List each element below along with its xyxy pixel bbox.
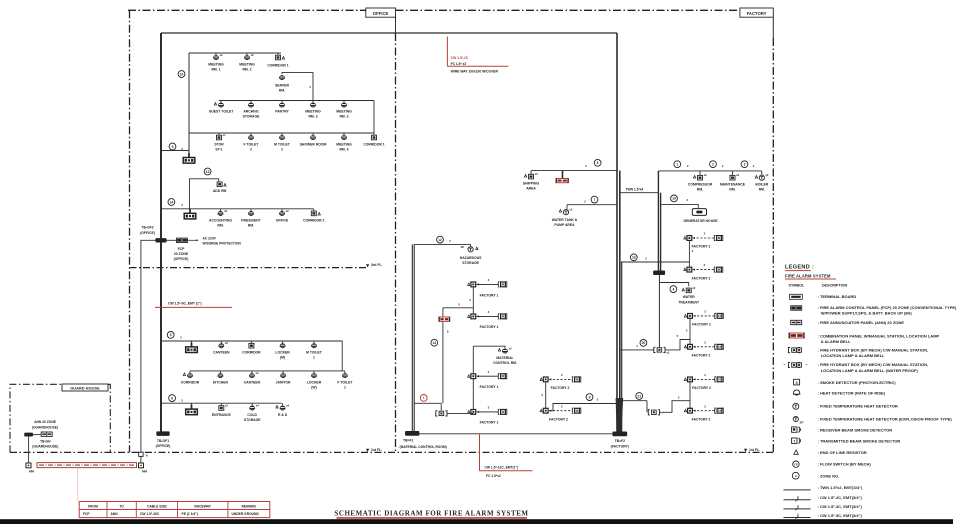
zone node 8 (594, 159, 601, 166)
zone node 13f (630, 254, 637, 261)
wire zone 21 row (620, 400, 647, 402)
terminal board legend symbol (790, 294, 803, 299)
heat detector COLD STORAGE (250, 406, 255, 409)
zone node 6 (169, 395, 176, 402)
svg-text:RM.: RM. (759, 188, 765, 192)
heat detector ARCHIVE STORAGE (248, 103, 253, 106)
wire TWN link (620, 192, 659, 194)
wire legend CW5 (784, 517, 811, 519)
terminal stand office top (188, 153, 190, 158)
svg-text:EP: EP (461, 245, 465, 249)
heat detector SHOWER ROOM (310, 135, 315, 138)
svg-text:F TOILET: F TOILET (337, 380, 353, 384)
svg-text:: FIXED TEMPERATURE HEAT DETEC: : FIXED TEMPERATURE HEAT DETECTOR (EXPLO… (818, 416, 953, 421)
wire zone 14 drop (443, 307, 473, 309)
wire zone 9 link (550, 404, 617, 411)
svg-text:1: 1 (676, 162, 678, 166)
node OFFICE area tag (366, 8, 396, 17)
beam detectors FACTORY 1 (1) (468, 283, 470, 286)
svg-text:: FIRE HYDRANT BOX (BY MECH) C: : FIRE HYDRANT BOX (BY MECH) C/W MANUAL … (818, 347, 929, 352)
svg-text:FIRE ALARM SYSTEM: FIRE ALARM SYSTEM (785, 274, 831, 279)
svg-text:RM. 3: RM. 3 (339, 115, 348, 119)
svg-text:PRESIDENT: PRESIDENT (241, 218, 261, 222)
wire stub (220, 209, 222, 211)
svg-text:CW 1.5²-12C, EMT(1"): CW 1.5²-12C, EMT(1") (485, 465, 519, 469)
wire factory main bundle a (616, 33, 618, 432)
smoke detector SHIPPING AREA (529, 174, 534, 179)
svg-text:3rd FL.: 3rd FL. (371, 263, 383, 267)
svg-text:2: 2 (250, 148, 252, 152)
svg-text:TWN 1.5²x4: TWN 1.5²x4 (626, 187, 644, 191)
wire (442, 308, 444, 404)
heat detector CANTEEN (219, 344, 224, 347)
terminal board TB=F2 (613, 432, 627, 436)
svg-text:WIRE WAY 100x100 W/COVER: WIRE WAY 100x100 W/COVER (451, 69, 499, 73)
svg-text:DESCRIPTION: DESCRIPTION (822, 283, 848, 287)
svg-text:SCHEMATIC DIAGRAM FOR FIRE ALA: SCHEMATIC DIAGRAM FOR FIRE ALARM SYSTEM (334, 510, 528, 518)
svg-text:F TOILET: F TOILET (243, 142, 259, 146)
smoke detector legend symbol (794, 379, 800, 385)
svg-text:: FIRE ALARM CONTROL PANEL (FC: : FIRE ALARM CONTROL PANEL (FCP) 20 ZONE… (818, 305, 958, 310)
heat detector SERVER RM. (279, 75, 284, 78)
svg-text:: COMBINATION PANEL W/MANUAL S: : COMBINATION PANEL W/MANUAL STATION, LO… (818, 333, 940, 338)
zone node 12 (437, 236, 444, 243)
wire TB=F1 riser a (411, 244, 413, 431)
svg-text:1: 1 (423, 396, 425, 400)
terminal stand entrance row (191, 405, 193, 410)
beam detectors FACTORY 1 (4) (468, 410, 470, 413)
wire (660, 401, 690, 413)
zone node 1 (red) (420, 395, 427, 402)
floor line 1st FL dash-dot (10, 451, 773, 453)
zone node 4f (670, 286, 677, 293)
svg-text:FCP: FCP (83, 512, 90, 516)
svg-text:RM.: RM. (217, 224, 223, 228)
svg-text:x2: x2 (704, 173, 707, 177)
svg-text:: FLOW SWITCH (BY MECH): : FLOW SWITCH (BY MECH) (818, 462, 872, 467)
wire (665, 340, 690, 350)
underground duct (red) (37, 463, 137, 468)
smoke detector COMPRESSOR RM (698, 175, 703, 180)
svg-text:COMPRESSOR: COMPRESSOR (688, 183, 713, 187)
terminal stand canteen row (191, 342, 193, 347)
svg-text:FCP: FCP (178, 247, 186, 251)
svg-text:FACTORY 2: FACTORY 2 (692, 418, 711, 422)
smoke detector CORRIDOR 1 end (372, 135, 377, 140)
node GUARD HOUSE tag (62, 384, 108, 391)
zone node 2f (710, 161, 717, 168)
svg-text:: FIRE HYDRANT BOX (BY MECH) C: : FIRE HYDRANT BOX (BY MECH) C/W MANUAL … (818, 362, 929, 367)
wire zone row 2 (219, 100, 374, 102)
terminal board TB=F1 (405, 431, 419, 435)
svg-text:TO: TO (119, 504, 124, 508)
svg-text:RM.: RM. (248, 224, 254, 228)
svg-text:x2: x2 (251, 53, 254, 57)
svg-text:OFFICE: OFFICE (276, 218, 289, 222)
svg-text:FACTORY 1: FACTORY 1 (480, 325, 499, 329)
wire legend CW3 (784, 508, 811, 510)
svg-text:: ZONE NO.: : ZONE NO. (818, 473, 840, 478)
heat detector OFFICE (279, 211, 284, 214)
zone node 9 (169, 143, 176, 150)
wire compressor row (658, 170, 761, 172)
svg-text:MEETING: MEETING (336, 109, 352, 113)
svg-text:3: 3 (744, 162, 746, 166)
svg-text:FACTORY 2: FACTORY 2 (692, 386, 711, 390)
wall boundary office/factory dash-dot (395, 33, 397, 452)
svg-text:: SMOKE DETECTOR (PHOTOELECTRI: : SMOKE DETECTOR (PHOTOELECTRIC) (818, 380, 897, 385)
svg-text:2: 2 (281, 148, 283, 152)
wire (689, 382, 691, 409)
heat detector R & D (280, 406, 285, 409)
svg-text:x2: x2 (225, 404, 228, 408)
svg-text:TB=F1: TB=F1 (403, 438, 414, 442)
heat detector PRESIDENT RM (248, 211, 253, 214)
heat detector PANTRY (279, 103, 284, 106)
svg-text:MEETING: MEETING (305, 109, 321, 113)
heat detector MEETING RM. 3 (310, 103, 315, 106)
svg-text:x3: x3 (692, 286, 695, 290)
svg-text:UNDER GROUND: UNDER GROUND (232, 512, 260, 516)
zone node 3f (741, 161, 748, 168)
svg-text:x2: x2 (224, 209, 227, 213)
heat detector LOCKER (M) (280, 344, 285, 347)
beam detectors FACTORY 2 (r3) (684, 314, 686, 317)
svg-text:FACTORY: FACTORY (747, 11, 767, 16)
svg-text:ANN: ANN (111, 512, 119, 516)
svg-text:SERVER: SERVER (275, 84, 289, 88)
svg-text:JANITOR: JANITOR (276, 380, 291, 384)
wire stub (220, 101, 222, 103)
svg-text:x3: x3 (535, 172, 538, 176)
node duct end left (26, 463, 31, 468)
svg-text:TREATMENT: TREATMENT (678, 300, 700, 304)
heat detector JANITOR (281, 373, 286, 376)
svg-text:HH: HH (29, 470, 34, 474)
svg-text:CORRIDOR: CORRIDOR (242, 350, 261, 354)
svg-text:PUMP AREA: PUMP AREA (554, 223, 575, 227)
svg-text:(M): (M) (280, 356, 285, 360)
svg-text:HAZARDOUS: HAZARDOUS (460, 256, 482, 260)
wire legend TWN (784, 489, 811, 491)
combination panel legend symbol (789, 333, 804, 338)
wire zone row 1 (189, 52, 281, 54)
svg-text:FS: FS (794, 463, 798, 467)
wire water treatment link (658, 275, 660, 348)
heat detector BOILER RM (759, 175, 764, 180)
svg-text:: CW 1.5²-3C, EMT(3/4"): : CW 1.5²-3C, EMT(3/4") (818, 504, 863, 509)
wire stub (566, 205, 568, 210)
svg-text:FACTORY 1: FACTORY 1 (480, 421, 499, 425)
svg-text:STORAGE: STORAGE (244, 418, 261, 422)
svg-text:PANTRY: PANTRY (275, 109, 289, 113)
wire server link (282, 73, 313, 101)
op-panel FCP office (177, 238, 188, 242)
heat detector MEETING RM. 3b (341, 103, 346, 106)
wire right col riser b (660, 193, 662, 271)
smoke detector CORRIDOR 1 (276, 55, 281, 60)
wire office-to-factory top feeder (161, 32, 617, 34)
svg-text:RM.: RM. (729, 188, 735, 192)
svg-text:: FIRE ANNUNCIATOR PANEL (ANN): : FIRE ANNUNCIATOR PANEL (ANN) 20 ZONE (818, 320, 905, 325)
svg-text:x4: x4 (256, 404, 259, 408)
beam transmitter legend symbol (792, 438, 797, 443)
svg-text:RM. 2: RM. 2 (242, 68, 251, 72)
heat detector M TOILET 1 (311, 344, 316, 347)
beam detectors FACTORY 2 (r4) (684, 345, 686, 348)
svg-text:FACTORY 1: FACTORY 1 (480, 293, 499, 297)
wire zone row 5a (161, 341, 342, 371)
terminal stand accounting row (189, 209, 191, 214)
zone node 20 (640, 340, 647, 347)
wire zone 13f row (621, 261, 690, 263)
svg-text:7: 7 (594, 198, 596, 202)
wire factory tag drop (772, 17, 774, 38)
svg-text:ENTRANCE: ENTRANCE (212, 413, 232, 417)
svg-text:RM. 1: RM. 1 (211, 68, 220, 72)
zone number legend symbol (792, 472, 799, 479)
fixed temp EP detector legend symbol (793, 416, 798, 421)
svg-text:x2: x2 (736, 173, 739, 177)
zone node 7 (591, 196, 598, 203)
wire (646, 401, 648, 413)
smoke detector MAINTENANCE RM (730, 175, 735, 180)
zone node 10 (178, 71, 185, 78)
beam detectors FACTORY 2 (c2) (540, 409, 542, 412)
wall boundary right dash-dot (772, 38, 774, 452)
svg-text:: FIXED TEMPERATURE HEAT DETEC: : FIXED TEMPERATURE HEAT DETECTOR (818, 404, 898, 409)
svg-text:: TRANSMITTED BEAM SMOKE DETEC: : TRANSMITTED BEAM SMOKE DETECTOR (818, 439, 901, 444)
svg-text:ADD RM: ADD RM (213, 189, 227, 193)
svg-text:x2: x2 (225, 341, 228, 345)
wire legend CW2 (784, 499, 811, 501)
node wireway label (446, 37, 448, 67)
wire stub (189, 371, 191, 373)
svg-text:MAINTENANCE: MAINTENANCE (720, 183, 746, 187)
svg-text:(FACTORY): (FACTORY) (611, 444, 629, 448)
svg-text:x2: x2 (765, 173, 768, 177)
svg-text:FROM: FROM (88, 504, 98, 508)
svg-text:RM. 4: RM. 4 (339, 148, 348, 152)
wire (440, 403, 442, 410)
wire TB-GH drop (28, 436, 30, 463)
svg-text:MEETING: MEETING (239, 62, 255, 66)
wire stub (215, 53, 217, 55)
wire shipping row (531, 170, 617, 172)
svg-text:12: 12 (438, 238, 442, 242)
heat detector MATERIAL CONTROL RM (502, 349, 507, 352)
smoke detector ADD RM (217, 182, 222, 187)
wire zone row 5b (190, 370, 345, 372)
combination panel factory (439, 317, 450, 321)
wire zone 20 row (620, 349, 654, 351)
svg-text:STORAGE: STORAGE (243, 115, 260, 119)
wire factory main bundle b (619, 171, 621, 432)
svg-text:9: 9 (589, 395, 591, 399)
flow switch legend symbol (793, 461, 799, 467)
fire hydrant box factory 1 (439, 411, 444, 415)
op-panel FCP legend symbol (791, 306, 802, 310)
wire zone row 6 (161, 402, 282, 404)
svg-text:LOCKER: LOCKER (307, 380, 322, 384)
svg-text:RM.: RM. (697, 188, 703, 192)
node FACTORY area tag (740, 8, 773, 17)
svg-text:AC 220V: AC 220V (203, 236, 217, 240)
svg-text:x2: x2 (666, 351, 669, 355)
svg-text:1st FL.: 1st FL. (371, 448, 382, 452)
zone node 9f (586, 394, 593, 401)
svg-text:PE (1 1/4"): PE (1 1/4") (182, 512, 198, 516)
node duct end right (139, 463, 144, 468)
svg-text:CABLE SIZE: CABLE SIZE (147, 504, 167, 508)
smoke detector ENTRANCE (219, 406, 224, 411)
op-panel ANN legend symbol (791, 320, 802, 324)
fixed temp detector legend symbol (793, 403, 799, 409)
smoke detector CORRIDOR 2 (311, 211, 316, 216)
svg-text:STORAGE: STORAGE (462, 261, 479, 265)
wire stub (218, 133, 220, 135)
svg-text:x2: x2 (286, 209, 289, 213)
svg-text:MATERIAL: MATERIAL (496, 356, 513, 360)
svg-text:OFFICE: OFFICE (373, 11, 389, 16)
node bottom border bar (0, 519, 953, 524)
end of line resistor legend symbol (794, 450, 799, 454)
svg-text:: END OF LINE RESISTOR: : END OF LINE RESISTOR (818, 450, 867, 455)
smoke detector STOR ST-1 (217, 135, 222, 140)
wire office tag drop (395, 17, 397, 33)
svg-text:GUARD HOUSE: GUARD HOUSE (70, 386, 100, 390)
svg-text:W/SURGE PROTECTION: W/SURGE PROTECTION (203, 242, 242, 246)
terminal board TB-GH (25, 433, 33, 436)
svg-text:FC 1.5² x2: FC 1.5² x2 (451, 62, 467, 66)
svg-text:CW 1.5²-6C, EMT (1"): CW 1.5²-6C, EMT (1") (168, 302, 202, 306)
wire (447, 412, 473, 414)
svg-text:FACTORY 2: FACTORY 2 (549, 418, 568, 422)
wire material control row (473, 346, 505, 348)
svg-text:: TERMINAL BOARD: : TERMINAL BOARD (818, 294, 857, 299)
svg-text:ACCOUNTING: ACCOUNTING (209, 218, 232, 222)
zone node 1f (674, 161, 681, 168)
svg-text:6: 6 (171, 396, 173, 400)
wall boundary guard house dashed box (10, 384, 110, 452)
node red cable label bottom (479, 434, 481, 471)
svg-text:KITCHEN: KITCHEN (213, 380, 229, 384)
svg-text:x4: x4 (286, 404, 289, 408)
svg-text:CORRIDOR 1: CORRIDOR 1 (267, 63, 288, 67)
heat detector F TOILET 2 (248, 135, 253, 138)
svg-text:FC 1.5²x2: FC 1.5²x2 (486, 474, 501, 478)
svg-text:CORRIDOR: CORRIDOR (181, 380, 200, 384)
wire stub (191, 341, 193, 343)
wall boundary top dash-dot (factory) (396, 9, 740, 11)
svg-text:LEGEND :: LEGEND : (785, 264, 814, 270)
heat detector KITCHEN (218, 373, 223, 376)
svg-text:FACTORY 2: FACTORY 2 (551, 386, 570, 390)
heat detector MEETING RM. 2 (244, 55, 249, 58)
svg-text:SHOWER ROOM: SHOWER ROOM (300, 142, 327, 146)
heat detector LOCKER (W) (311, 373, 316, 376)
svg-text:EP: EP (800, 420, 804, 424)
wire right col riser a (657, 171, 659, 271)
heat detector MEETING RM. 4 (341, 135, 346, 138)
wire (689, 318, 691, 345)
node 1st FL crossing box (139, 452, 143, 456)
heat detector HAZARDOUS STORAGE (467, 243, 471, 245)
zone node 21 (636, 393, 643, 400)
wire stub (191, 403, 193, 405)
svg-text:: CW 1.5²-5C, EMT(3/4"): : CW 1.5²-5C, EMT(3/4") (818, 513, 863, 518)
svg-text:W/POWER SUPPLY,SPD, & BATT. BA: W/POWER SUPPLY,SPD, & BATT. BACK UP (8H) (821, 311, 913, 316)
svg-text:19: 19 (672, 197, 676, 201)
wire duct to table (faint) (77, 468, 79, 502)
wire (472, 287, 474, 315)
fire hydrant box factory 21 (652, 410, 657, 414)
beam detectors FACTORY 1 (2) (468, 315, 470, 318)
svg-text:(MATERIAL CONTROL ROOM): (MATERIAL CONTROL ROOM) (400, 445, 447, 449)
svg-text:: RECEIVER BEAM SMOKE DETECTOR: : RECEIVER BEAM SMOKE DETECTOR (818, 427, 893, 432)
heat detector F TOILET 1 (342, 373, 347, 376)
wire (688, 238, 690, 267)
zone node 19 (671, 195, 678, 202)
svg-text:TB=F2: TB=F2 (615, 439, 626, 443)
wall boundary top dash-dot (office) (128, 9, 366, 11)
wire TB-OF2 left drop (141, 240, 156, 452)
wire zone 19 row (661, 204, 698, 208)
svg-text:CANTEEN: CANTEEN (244, 380, 261, 384)
wire TB-OF2 to FCP (166, 239, 176, 241)
svg-text:x2: x2 (509, 346, 512, 350)
svg-text:": " (784, 363, 786, 368)
svg-text:4: 4 (672, 287, 674, 291)
svg-text:21: 21 (637, 394, 641, 398)
svg-text:FACTORY 2: FACTORY 2 (692, 354, 711, 358)
combination panel shipping (562, 171, 564, 179)
svg-text:FACTORY 2: FACTORY 2 (692, 245, 711, 249)
svg-text:10: 10 (180, 72, 184, 76)
wire hazardous row (414, 243, 467, 245)
beam detectors FACTORY 2 (r5) (684, 378, 686, 381)
beam detectors FACTORY 2 (r2) (684, 268, 686, 271)
svg-text:1st FL.: 1st FL. (749, 448, 760, 452)
beam detectors FACTORY 2 (c1) (540, 378, 542, 381)
svg-text:LOCATION LAMP & ALARM BELL: LOCATION LAMP & ALARM BELL (821, 353, 885, 358)
svg-text:2: 2 (712, 162, 714, 166)
svg-text:CONTROL RM.: CONTROL RM. (493, 361, 517, 365)
heat detector MEETING RM. 1 (213, 55, 218, 58)
svg-text:AREA: AREA (526, 187, 536, 191)
svg-text:LOCKER: LOCKER (275, 350, 290, 354)
svg-text:CANTEEN: CANTEEN (213, 350, 230, 354)
heat detector legend symbol (793, 390, 800, 395)
node cable schedule table (79, 502, 270, 518)
wire main office riser (160, 33, 162, 432)
svg-text:M TOILET: M TOILET (274, 142, 291, 146)
svg-text:x2: x2 (256, 371, 259, 375)
smoke detector WATER TREATMENT (686, 288, 691, 293)
beam detectors FACTORY 1 (3) (468, 375, 470, 378)
svg-text:RACEWAY: RACEWAY (194, 504, 211, 508)
zone node 13 (204, 168, 211, 175)
svg-text:TB-OF1: TB-OF1 (157, 439, 169, 443)
svg-text:: TWN 1.5²x2, EMT(3/4"): : TWN 1.5²x2, EMT(3/4") (818, 485, 863, 490)
svg-text:M TOILET: M TOILET (306, 350, 323, 354)
fire hydrant box factory 20 (657, 348, 662, 352)
svg-text:x1: x1 (223, 133, 226, 137)
svg-text:ARCHIVE: ARCHIVE (243, 109, 259, 113)
beam receiver legend symbol (792, 427, 797, 432)
svg-text:GUEST TOILET: GUEST TOILET (209, 109, 235, 113)
svg-text:& ALARM BELL: & ALARM BELL (821, 339, 851, 344)
